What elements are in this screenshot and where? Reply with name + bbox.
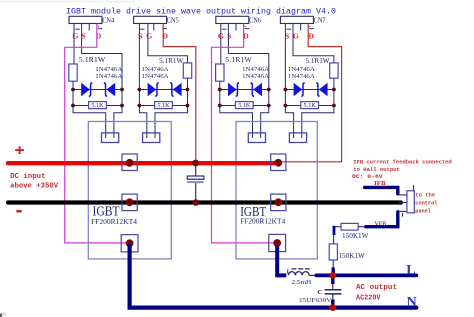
zener diodes 1N4746A x2 (U1 top-left) [73,66,123,97]
connector CN4 [69,16,115,40]
wire: U2 top-right left node to gate pin [220,81,253,138]
junction dots (U2 top-right) [218,88,271,108]
svg-text:CN7: CN7 [314,16,326,24]
svg-text:G: G [72,32,78,41]
svg-text:S: S [227,32,231,41]
wire: U1 bottom-left emitter lead from S [139,24,146,139]
wire: VFB (thick navy) [366,212,398,227]
junction dots (U2 bottom-right) [284,88,336,108]
wire: L output line (thick navy) [316,273,416,277]
resistor 5.1K (U2 top-right) [220,102,269,110]
wire: to R6 [333,235,335,244]
terminal U1 AC output [121,235,138,252]
svg-text:CN4: CN4 [102,16,114,24]
wire: VFB pin stub [398,210,407,212]
svg-text:panel: panel [415,208,431,215]
svg-text:1N4746A: 1N4746A [288,73,315,80]
junction dots (U1 top-left) [71,88,124,108]
capacitor C2 15UF630V [299,275,342,306]
wire: IFB (thick navy) [365,187,398,193]
svg-text:5.1K: 5.1K [157,102,170,109]
svg-text:IGBT module drive sine wave ou: IGBT module drive sine wave output wirin… [66,7,336,17]
wire: U1 top-left emitter lead from S [82,24,122,139]
svg-text:5.1K: 5.1K [238,102,251,109]
svg-text:FF200R12KT4: FF200R12KT4 [240,217,285,226]
svg-text:150K1W: 150K1W [342,232,369,240]
wire: CN5 D to DC+ bus (thin red) [163,24,196,164]
wire: U2 top-right emitter lead from S [228,24,268,139]
svg-text:5.1R1W: 5.1R1W [79,57,106,64]
note: IFB current feedback text [352,158,452,180]
note: to the control panel [415,191,438,214]
wire: U2 bottom-right emitter lead from S [285,24,293,139]
IGBT module U2 FF200R12KT4 [236,122,317,259]
wire: DC- pin stub [399,202,407,204]
label AC output AC220V [356,284,397,302]
svg-text:DC input: DC input [10,173,45,181]
wire: U2 bottom-right right node to gate pin [302,78,334,138]
DC- bus (thick black) [8,200,401,204]
resistor R 5.1R1W (U1 bottom-left) [159,58,192,78]
svg-text:N: N [407,295,417,310]
node: cap C2 on N line [329,304,336,311]
svg-text:L: L [406,263,415,278]
gate connector J4 (U2 right) [289,133,306,143]
gate connector J3 (U2 left) [248,133,265,143]
svg-text:G: G [146,32,152,41]
gate connector J2 (U1 right) [143,133,160,143]
svg-text:AC output: AC output [356,284,397,292]
terminal U2 AC output [269,234,286,251]
node: C1 on DC- bus [192,199,199,206]
terminal U1 collector (DC+) [122,154,137,171]
zener diodes 1N4746A x2 (U2 top-right) [220,66,270,97]
svg-text:control: control [415,200,438,207]
svg-text:5.1R1W: 5.1R1W [225,57,252,64]
wire: R6 to L line [332,260,334,269]
svg-text:150K1W: 150K1W [338,252,365,260]
label + [15,149,24,151]
svg-text:FF200R12KT4: FF200R12KT4 [91,217,137,226]
gate connector J1 (U1 left) [102,133,119,143]
svg-text:G: G [293,32,299,41]
svg-text:1N4746A: 1N4746A [142,66,169,73]
wire: divider mid stub [333,226,336,235]
svg-text:IFB current feedback connected: IFB current feedback connected [353,158,451,165]
svg-text:AC220V: AC220V [356,295,381,303]
svg-text:5.1R1W: 5.1R1W [159,58,184,65]
resistor R 5.1R1W (U2 bottom-right) [306,58,339,78]
faint top streak [0,1,135,3]
svg-text:15UF630V: 15UF630V [299,297,332,304]
connector J5 to control panel [403,185,415,216]
wire: U1 top-left left node to gate pin [73,81,106,138]
resistor 5.1K (U1 top-left) [73,102,122,110]
wire: CN6 D to IGBT2 output (magenta) [212,24,275,243]
resistor R6 150K1W (vertical) [329,244,365,260]
IGBT module U1 FF200R12KT4 [88,122,171,259]
inductor L1 2.5mH [287,269,317,286]
terminal U2 collector (DC+) [271,154,286,171]
wire: U2 output down to inductor (thick navy) [277,246,286,276]
svg-text:S: S [138,32,142,41]
svg-text:above +350V: above +350V [10,183,59,191]
svg-text:C: C [318,289,323,296]
svg-text:1N4746A: 1N4746A [95,66,122,73]
wire: U2 top-right gate lead [220,24,222,65]
svg-text:1N4746A: 1N4746A [242,66,269,73]
node: C1 on DC+ bus [192,160,199,167]
svg-text:CN6: CN6 [249,16,261,24]
resistor R5 150K1W (horizontal) [334,223,369,239]
wire: U1 bottom-left gate lead [148,24,188,64]
svg-text:1N4746A: 1N4746A [242,73,269,80]
wire: U1 output to N line (thick navy) [130,246,417,308]
svg-text:2.5mH: 2.5mH [292,279,312,286]
wire: U1 top-left gate lead [73,24,75,65]
svg-text:to the: to the [415,191,436,198]
connector CN7 [280,16,326,40]
corner artifact [0,314,2,317]
resistor R 5.1R1W (U1 top-left) [69,57,106,81]
svg-text:CN5: CN5 [167,16,179,24]
connector CN5 [134,16,180,40]
label - [16,210,21,213]
terminal U1 emitter (DC-) [122,194,137,211]
svg-text:5.1K: 5.1K [304,102,317,109]
resistor R 5.1R1W (U2 top-right) [216,57,253,81]
resistor 5.1K (U2 bottom-right) [285,102,334,110]
svg-text:5.1K: 5.1K [91,102,104,109]
wire: IFB pin stub [398,194,407,196]
svg-text:1N4746A: 1N4746A [142,73,169,80]
svg-text:1N4746A: 1N4746A [95,73,122,80]
DC+ bus (thick red) [8,161,278,165]
svg-text:1N4746A: 1N4746A [288,66,315,73]
zener diodes 1N4746A x2 (U2 bottom-right) [285,66,334,97]
connector CN6 [216,16,262,40]
node: cap C2 on L line [329,272,336,279]
wire: U2 bottom-right gate lead [293,24,334,64]
zener diodes 1N4746A x2 (U1 bottom-left) [139,66,187,97]
junction dots (U1 bottom-left) [138,88,190,108]
label DC input above +350V [10,173,59,191]
svg-text:5.1R1W: 5.1R1W [306,58,331,65]
wire: U1 bottom-left right node to gate pin [155,78,188,138]
capacitor C1 (bus electrolytic) [187,163,204,203]
terminal U2 emitter (DC-) [271,194,286,211]
svg-text:L: L [287,269,291,276]
wire: CN4 D to IGBT1 output (magenta) [65,24,127,243]
resistor 5.1K (U1 bottom-left) [139,102,187,110]
svg-text:D: D [309,32,315,41]
svg-text:to Hall output: to Hall output [353,166,400,173]
wire: CN7 D to DC+ bus (thin red) [279,24,342,162]
